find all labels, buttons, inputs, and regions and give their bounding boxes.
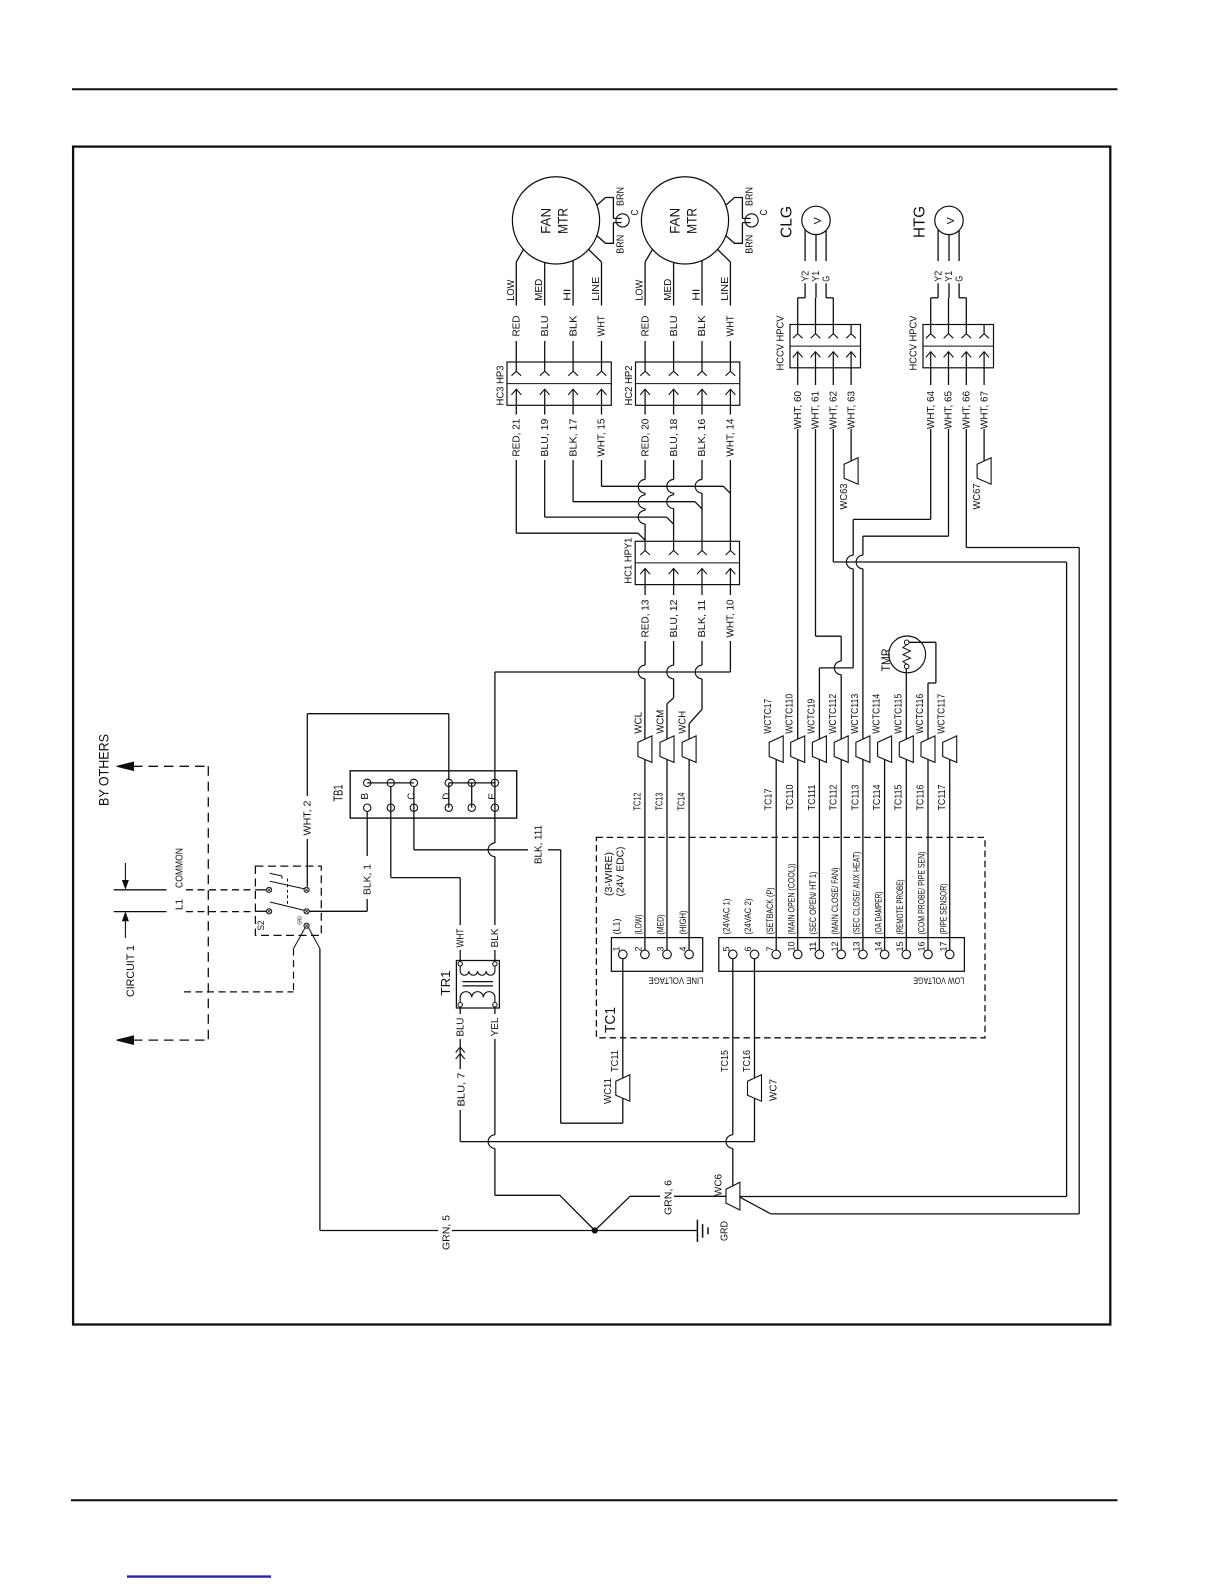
- svg-text:(3-WIRE): (3-WIRE): [604, 852, 615, 896]
- TR1 primary winding: [460, 966, 495, 975]
- svg-text:BLU, 12: BLU, 12: [669, 599, 680, 637]
- wire TC116 to LOW VOLTAGE pin: [927, 759, 929, 950]
- wire WHT, 64 below connector: [930, 368, 932, 385]
- svg-text:WCTC117: WCTC117: [937, 693, 948, 733]
- svg-text:12: 12: [830, 942, 840, 952]
- svg-text:L1: L1: [175, 899, 186, 910]
- svg-text:GRN, 6: GRN, 6: [664, 1180, 675, 1215]
- wire TC114 to LOW VOLTAGE pin: [884, 759, 886, 950]
- terminal 10 (MAIN OPEN (COOL)): [793, 950, 802, 959]
- splice WCM: [660, 736, 674, 763]
- wire WHT, 65 below connector: [948, 368, 950, 385]
- wire run RED, 21 horizontal: [516, 532, 638, 534]
- wire hop: [638, 495, 645, 509]
- switch terminal: [304, 923, 309, 928]
- dashed feeder top branch: [133, 765, 208, 767]
- terminal strip LINE VOLTAGE: [611, 938, 702, 972]
- svg-text:BLK: BLK: [697, 315, 708, 336]
- wire L1 (solid then dashed): [114, 911, 167, 913]
- svg-text:WC67: WC67: [972, 483, 983, 509]
- svg-text:CLG: CLG: [779, 206, 796, 238]
- wire motor lead MED / BLU: [673, 263, 675, 306]
- svg-text:TC15: TC15: [720, 1050, 731, 1072]
- svg-text:G: G: [822, 276, 833, 282]
- svg-text:WHT, 14: WHT, 14: [726, 418, 737, 456]
- svg-text:WHT, 60: WHT, 60: [793, 391, 804, 429]
- svg-text:BLK: BLK: [490, 928, 501, 947]
- svg-text:(24V EDC): (24V EDC): [615, 847, 626, 897]
- wire WHT,65 to WCTC113: [863, 535, 949, 537]
- svg-text:WHT, 10: WHT, 10: [726, 599, 737, 637]
- ground symbol GRD: [696, 1220, 698, 1242]
- svg-text:E: E: [487, 793, 499, 800]
- svg-text:1: 1: [612, 947, 622, 952]
- wire WHT,60 to WCTC110: [797, 433, 799, 739]
- wire hop over BLU,7: [488, 1135, 495, 1149]
- feeder arrow top: [117, 762, 134, 770]
- svg-text:7: 7: [765, 947, 775, 952]
- controller TC1 dashed outline: [596, 837, 985, 1037]
- CLG leads Y2 Y1 G: [804, 230, 806, 262]
- svg-text:MED: MED: [534, 279, 545, 301]
- connector HC3 HP3: [507, 362, 611, 405]
- svg-text:(PIPE SENSOR): (PIPE SENSOR): [938, 884, 949, 935]
- splice WC7: [748, 1075, 762, 1102]
- switch terminal: [304, 887, 309, 892]
- wire WHT, 14 from HC2 to HC1: [729, 405, 731, 414]
- svg-text:(OA DAMPER): (OA DAMPER): [873, 892, 884, 935]
- connector HCCV HPCV (CLG): [790, 325, 861, 368]
- svg-text:BLK, 17: BLK, 17: [568, 418, 579, 456]
- wire WHT,61 to WCTC112: [815, 433, 817, 636]
- svg-text:BLU: BLU: [455, 1018, 466, 1037]
- wire RED, 21 from HC3 to HC1 pin: [515, 405, 517, 414]
- svg-text:TC1: TC1: [602, 1007, 619, 1033]
- svg-text:CIRCUIT 1: CIRCUIT 1: [125, 945, 137, 997]
- svg-text:C: C: [406, 792, 418, 799]
- footer link underline: [127, 1575, 271, 1577]
- svg-text:WHT, 61: WHT, 61: [811, 391, 822, 429]
- wire motor lead LINE / WHT: [589, 249, 602, 262]
- svg-text:WHT, 2: WHT, 2: [303, 800, 314, 835]
- wire hop: [846, 555, 853, 569]
- wire WHT, 67 below connector: [983, 368, 985, 385]
- run capacitor C: [597, 198, 614, 219]
- wire YEL from TR1 secondary: [494, 1007, 496, 1014]
- splice WCTC110: [791, 736, 805, 763]
- svg-text:HCCV HPCV: HCCV HPCV: [776, 315, 787, 370]
- svg-text:WHT, 67: WHT, 67: [979, 391, 990, 429]
- splice WC11: [616, 1075, 630, 1102]
- HTG leads Y2 Y1 G: [937, 230, 939, 262]
- wire GRN,6 from junction to WC6: [595, 1196, 630, 1230]
- TB1 link mid vertical: [471, 783, 473, 808]
- wire TC110 to LOW VOLTAGE pin: [797, 759, 799, 950]
- splice WCTC112: [834, 736, 848, 763]
- switch blade pole 1: [270, 881, 304, 889]
- wire RED, 20 from HC2 to HC1: [644, 405, 646, 414]
- wire TC13 to LINE VOLTAGE pin 3: [666, 759, 668, 950]
- svg-text:16: 16: [917, 942, 927, 952]
- svg-text:WCTC112: WCTC112: [828, 693, 839, 733]
- svg-text:GRN, 5: GRN, 5: [442, 1215, 453, 1250]
- svg-text:V: V: [813, 217, 824, 224]
- splice WCTC116: [921, 736, 935, 763]
- wire below WC7 to BLU,7 corner: [754, 1098, 756, 1141]
- svg-text:WHT: WHT: [726, 316, 737, 337]
- wire WHT, 60 below connector: [797, 368, 799, 385]
- svg-text:BY OTHERS: BY OTHERS: [96, 734, 111, 806]
- svg-text:WC7: WC7: [769, 1079, 780, 1101]
- svg-text:RED, 20: RED, 20: [640, 418, 651, 456]
- switch terminal: [267, 887, 272, 892]
- svg-text:14: 14: [873, 942, 883, 952]
- TB1 terminal: [491, 779, 498, 786]
- svg-text:BLU, 7: BLU, 7: [457, 1072, 468, 1106]
- wire TMR bottom to pin 15: [905, 669, 907, 739]
- TB1 terminal: [468, 779, 475, 786]
- svg-text:TC11: TC11: [610, 1050, 621, 1072]
- terminal 15 (REMOTE PROBE): [902, 950, 911, 959]
- svg-text:TC14: TC14: [677, 792, 688, 810]
- svg-text:G: G: [955, 276, 966, 282]
- wire hop: [834, 661, 841, 675]
- wire hop: [856, 555, 863, 569]
- svg-text:BLK, 1: BLK, 1: [363, 864, 374, 895]
- terminal 14 (OA DAMPER): [880, 950, 889, 959]
- svg-text:WHT, 63: WHT, 63: [846, 391, 857, 429]
- terminal 5 (24VAC 1): [729, 950, 738, 959]
- CLG valve actuator circle: [802, 206, 830, 234]
- terminal strip LOW VOLTAGE: [719, 938, 965, 972]
- wire motor lead MED / BLU: [544, 263, 546, 306]
- svg-text:S2: S2: [256, 921, 266, 931]
- switch mechanical tie (dashed): [287, 879, 289, 907]
- wire motor lead LINE / WHT: [718, 249, 731, 262]
- wire BLK,111 down leg: [560, 850, 562, 1123]
- wire BLU, 19 from HC3 to HC1 pin: [544, 405, 546, 414]
- run capacitor C: [726, 198, 743, 219]
- wire hop over WHT,10 run: [667, 665, 674, 679]
- svg-text:6: 6: [743, 947, 753, 952]
- svg-text:WHT, 65: WHT, 65: [944, 391, 955, 429]
- TB1 terminal: [387, 779, 394, 786]
- wire run BLK, 17 horizontal: [573, 501, 695, 503]
- wire TC14 to LINE VOLTAGE pin 4: [688, 759, 690, 950]
- terminal 6 (24VAC 2): [750, 950, 759, 959]
- wire BLK, 11 below HC1: [701, 585, 703, 595]
- thermistor TMR: [889, 636, 926, 673]
- svg-text:BRN: BRN: [745, 235, 756, 254]
- TR1 secondary winding: [460, 992, 495, 1003]
- svg-text:FAN: FAN: [539, 208, 554, 234]
- svg-text:2: 2: [634, 947, 644, 952]
- svg-text:17: 17: [938, 942, 948, 952]
- svg-text:BRN: BRN: [616, 187, 627, 206]
- connector HC1 HPY1: [635, 541, 739, 584]
- wire BLK,1 from TB1-B to S2: [366, 811, 368, 856]
- wire hop over BLK,111: [488, 843, 495, 857]
- wire BLU,7 horizontal to WC7: [460, 1141, 754, 1143]
- wire cap WC67: [977, 458, 991, 485]
- svg-text:(COM PROBE/ PIPE SEN): (COM PROBE/ PIPE SEN): [917, 852, 928, 935]
- svg-text:RED, 13: RED, 13: [640, 599, 651, 637]
- dimension arrow up: [124, 921, 126, 939]
- wire motor lead HI / BLK: [572, 261, 574, 306]
- wire WHT,67 to cap WC67: [983, 433, 985, 461]
- terminal 2 (LOW): [641, 950, 650, 959]
- wire BLK,11 jog to WCH: [701, 679, 703, 710]
- svg-text:BLK, 111: BLK, 111: [534, 825, 545, 864]
- terminal 13 (SEC CLOSE/ AUX HEAT): [859, 950, 868, 959]
- wire TC16 from pin6 to WC7: [754, 959, 756, 1078]
- terminal 12 (MAIN CLOSE/ FAN): [837, 950, 846, 959]
- svg-text:WCL: WCL: [633, 711, 644, 733]
- connector HCCV HPCV (HTG): [923, 325, 994, 368]
- svg-text:WCTC114: WCTC114: [872, 693, 883, 733]
- svg-text:HC1 HPY1: HC1 HPY1: [624, 537, 635, 583]
- connector HC2 HP2: [636, 362, 740, 405]
- terminal 4 (HIGH): [685, 950, 694, 959]
- svg-text:4: 4: [678, 947, 688, 952]
- svg-text:WCTC113: WCTC113: [850, 693, 861, 733]
- splice WCH: [682, 736, 696, 763]
- TB1 link D-E: [449, 782, 495, 784]
- terminal 17 (PIPE SENSOR): [945, 950, 954, 959]
- svg-text:(REMOTE PROBE): (REMOTE PROBE): [895, 880, 906, 935]
- svg-text:3: 3: [656, 947, 666, 952]
- svg-text:COMMON: COMMON: [175, 848, 186, 888]
- wire BLK,111 horizontal run: [414, 849, 528, 851]
- TR1 terminal: [493, 1003, 497, 1007]
- wire hop over WHT,10 run: [695, 665, 702, 679]
- svg-text:TB1: TB1: [331, 785, 346, 802]
- switch terminal: [267, 909, 272, 914]
- wire run BLU, 19 horizontal: [545, 516, 667, 518]
- wire run WHT, 15 horizontal: [602, 485, 724, 487]
- terminal 11 (SEC OPEN/ HT 1): [815, 950, 824, 959]
- wire TC113 to LOW VOLTAGE pin: [862, 759, 864, 950]
- wire WHT, 15 from HC3 to HC1 pin: [601, 405, 603, 414]
- splice WCTC117: [943, 736, 957, 763]
- wire WHT,66 to WC6 via right side: [965, 433, 967, 548]
- svg-text:GRD: GRD: [298, 916, 304, 925]
- svg-text:RED, 21: RED, 21: [512, 418, 523, 456]
- svg-text:WCTC115: WCTC115: [893, 693, 904, 733]
- TR1 core: [463, 981, 494, 983]
- dashed ground run from switch: [294, 928, 305, 948]
- TR1 terminal: [493, 962, 497, 966]
- wire WHT, 63 below connector: [850, 368, 852, 385]
- svg-text:LOW VOLTAGE: LOW VOLTAGE: [913, 975, 964, 986]
- svg-text:WC6: WC6: [714, 1174, 725, 1196]
- splice WCTC114: [878, 736, 892, 763]
- svg-text:WHT, 66: WHT, 66: [962, 391, 973, 429]
- svg-text:C: C: [759, 210, 770, 216]
- svg-text:(L1): (L1): [612, 919, 623, 935]
- svg-text:BLU: BLU: [540, 316, 551, 337]
- wire hop over BLU,7: [726, 1135, 733, 1149]
- svg-text:V: V: [946, 217, 957, 224]
- wire TC117 to LOW VOLTAGE pin: [949, 759, 951, 950]
- TR1 terminal: [458, 962, 462, 966]
- feeder arrow bottom: [117, 1036, 134, 1044]
- wire TB1-E BLK to TR1: [494, 672, 496, 843]
- splice WCTC113: [856, 736, 870, 763]
- wire RED, 13 below HC1: [644, 585, 646, 595]
- wire BLK, 16 from HC2 to HC1: [701, 405, 703, 414]
- svg-text:WC11: WC11: [603, 1078, 614, 1104]
- svg-text:MTR: MTR: [685, 208, 700, 234]
- svg-text:TC117: TC117: [937, 784, 948, 810]
- svg-text:BLK, 16: BLK, 16: [697, 418, 708, 456]
- wire hop: [667, 480, 674, 494]
- wire hop over WHT,10 run: [638, 665, 645, 679]
- svg-text:WCTC17: WCTC17: [763, 698, 774, 733]
- svg-text:LINE VOLTAGE: LINE VOLTAGE: [649, 975, 704, 986]
- svg-text:BLK, 11: BLK, 11: [697, 599, 708, 637]
- svg-text:HC3 HP3: HC3 HP3: [496, 365, 507, 405]
- svg-text:HI: HI: [563, 289, 574, 301]
- wire TC112 to LOW VOLTAGE pin: [840, 759, 842, 950]
- dashed feeder vertical (by others): [207, 766, 209, 1040]
- wire BLU,12 jog to WCM: [673, 679, 675, 698]
- TR1 terminal: [458, 1003, 462, 1007]
- wire motor lead HI / BLK: [701, 261, 703, 306]
- svg-text:LINE: LINE: [591, 276, 602, 300]
- wire TC11 from pin1 to WC11: [622, 959, 624, 1078]
- svg-text:TC114: TC114: [872, 784, 883, 810]
- svg-text:HC2 HP2: HC2 HP2: [624, 365, 635, 405]
- disconnect switch S2 dashed box: [255, 866, 321, 935]
- wire hop: [638, 510, 645, 524]
- svg-text:TC111: TC111: [807, 784, 818, 810]
- svg-text:WCTC110: WCTC110: [785, 693, 796, 733]
- TB1 terminal: [364, 779, 371, 786]
- wire TC15 from pin5 to WC6: [732, 959, 734, 1135]
- wire WHT,10 horizontal to TB1-E: [495, 671, 731, 673]
- svg-text:TMR: TMR: [879, 648, 893, 671]
- dimension arrow down: [124, 863, 126, 881]
- svg-text:HTG: HTG: [912, 206, 929, 238]
- svg-text:TC12: TC12: [632, 792, 643, 810]
- svg-text:D: D: [441, 792, 453, 799]
- wire TC17 to LOW VOLTAGE pin: [775, 759, 777, 950]
- wire BLK,111 bottom to WC11: [561, 1122, 623, 1124]
- svg-text:TC110: TC110: [785, 784, 796, 810]
- svg-text:RED: RED: [640, 316, 651, 337]
- splice WCL: [638, 736, 652, 763]
- terminal 3 (MED): [663, 950, 672, 959]
- svg-text:Y1: Y1: [944, 270, 955, 281]
- svg-text:LOW: LOW: [635, 279, 646, 301]
- svg-text:BRN: BRN: [745, 187, 756, 206]
- drawing border frame: [73, 147, 1110, 1325]
- terminal block TB1: [350, 771, 517, 818]
- svg-text:13: 13: [852, 942, 862, 952]
- wire YEL to ground junction: [495, 1194, 560, 1196]
- svg-text:(SETBACK (P): (SETBACK (P): [765, 888, 776, 935]
- wire WHT, 10 below HC1: [729, 585, 731, 595]
- svg-text:WHT, 15: WHT, 15: [597, 418, 608, 456]
- transformer TR1 box: [456, 961, 499, 1009]
- splice WCTC115: [899, 736, 913, 763]
- wire WHT,2 from S2 to TB1-D: [306, 714, 308, 796]
- terminal 7 (SETBACK (P): [772, 950, 781, 959]
- wire TC111 to LOW VOLTAGE pin: [818, 759, 820, 950]
- splice WCTC19: [812, 736, 826, 763]
- fan motor at x=556: [512, 177, 599, 264]
- svg-text:(MAIN CLOSE/ FAN): (MAIN CLOSE/ FAN): [830, 868, 841, 935]
- svg-text:TC113: TC113: [850, 784, 861, 810]
- wire RED,13 to WCL: [644, 679, 646, 739]
- fan motor at x=685: [641, 177, 728, 264]
- svg-text:(24VAC 2): (24VAC 2): [743, 899, 754, 935]
- svg-text:TC112: TC112: [829, 784, 840, 810]
- wire TB1-C to BLK,111 run: [413, 787, 415, 850]
- wire diagonal into WC6: [740, 1197, 771, 1214]
- wire BLK, 17 from HC3 to HC1 pin: [572, 405, 574, 414]
- svg-text:WHT: WHT: [597, 316, 608, 337]
- wire COMMON (solid then dashed): [114, 889, 167, 891]
- svg-text:(24VAC 1): (24VAC 1): [722, 899, 733, 935]
- svg-text:GRD: GRD: [719, 1221, 731, 1241]
- svg-text:RED: RED: [512, 316, 523, 337]
- svg-text:WCTC116: WCTC116: [915, 693, 926, 733]
- svg-text:11: 11: [808, 942, 818, 952]
- TB1 link D vertical: [448, 783, 450, 808]
- wire WHT, 61 below connector: [815, 368, 817, 385]
- svg-text:(MAIN OPEN (COOL)): (MAIN OPEN (COOL)): [786, 864, 797, 935]
- svg-text:(HIGH): (HIGH): [678, 911, 689, 935]
- splice WCTC17: [769, 736, 783, 763]
- svg-text:TC116: TC116: [915, 784, 926, 810]
- svg-text:HI: HI: [692, 289, 703, 301]
- svg-text:MTR: MTR: [556, 208, 571, 234]
- wire motor lead LOW / RED: [516, 249, 523, 262]
- svg-text:TC13: TC13: [654, 792, 665, 810]
- wire below WC11 (drawn above in BLK,111 leg): [622, 1097, 624, 1099]
- wire TB1 mid to TR1 WHT lead: [390, 787, 392, 878]
- wire BLU,7 from TR1 secondary: [459, 1007, 461, 1014]
- svg-text:C: C: [630, 210, 641, 216]
- svg-text:WC63: WC63: [839, 483, 850, 509]
- svg-text:BLU, 18: BLU, 18: [669, 418, 680, 456]
- wire continuation arrows: [456, 1047, 465, 1053]
- svg-text:TC16: TC16: [742, 1050, 753, 1072]
- ground junction dot: [592, 1228, 597, 1233]
- svg-text:HCCV HPCV: HCCV HPCV: [909, 315, 920, 370]
- svg-text:LOW: LOW: [506, 279, 517, 301]
- wire WHT, 66 below connector: [965, 368, 967, 385]
- svg-text:WHT, 64: WHT, 64: [926, 391, 937, 429]
- switch lead stubs: [255, 889, 266, 891]
- terminal 16 (COM PROBE/ PIPE SEN): [924, 950, 933, 959]
- svg-text:(SEC OPEN/ HT 1): (SEC OPEN/ HT 1): [808, 872, 819, 935]
- wire BLU, 18 from HC2 to HC1: [673, 405, 675, 414]
- wire GRN,5 from switch ground to junction and GRD: [319, 949, 321, 1231]
- wire WHT,63 to cap WC63: [850, 433, 852, 461]
- svg-text:(MED): (MED): [656, 915, 667, 935]
- wire TC12 to LINE VOLTAGE pin 2: [644, 759, 646, 950]
- svg-text:WCM: WCM: [656, 710, 667, 734]
- wire WHT,64 to WCTC19: [853, 518, 931, 520]
- svg-text:BLK: BLK: [568, 315, 579, 336]
- wire motor lead LOW / RED: [645, 249, 652, 262]
- switch blade pole 2: [270, 902, 304, 910]
- wire hop: [667, 495, 674, 509]
- HTG valve actuator circle: [935, 206, 963, 234]
